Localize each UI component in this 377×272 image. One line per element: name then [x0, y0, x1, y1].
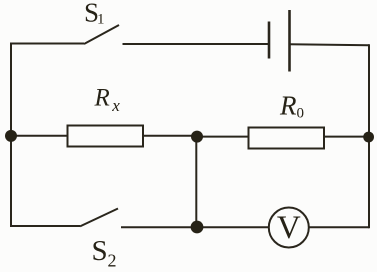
svg-text:R: R [94, 85, 110, 112]
svg-text:V: V [277, 210, 301, 246]
svg-text:S: S [92, 235, 108, 267]
svg-text:x: x [111, 96, 120, 115]
svg-text:0: 0 [297, 106, 305, 122]
svg-text:1: 1 [97, 12, 105, 28]
svg-text:2: 2 [108, 251, 117, 271]
svg-text:R: R [279, 91, 297, 121]
